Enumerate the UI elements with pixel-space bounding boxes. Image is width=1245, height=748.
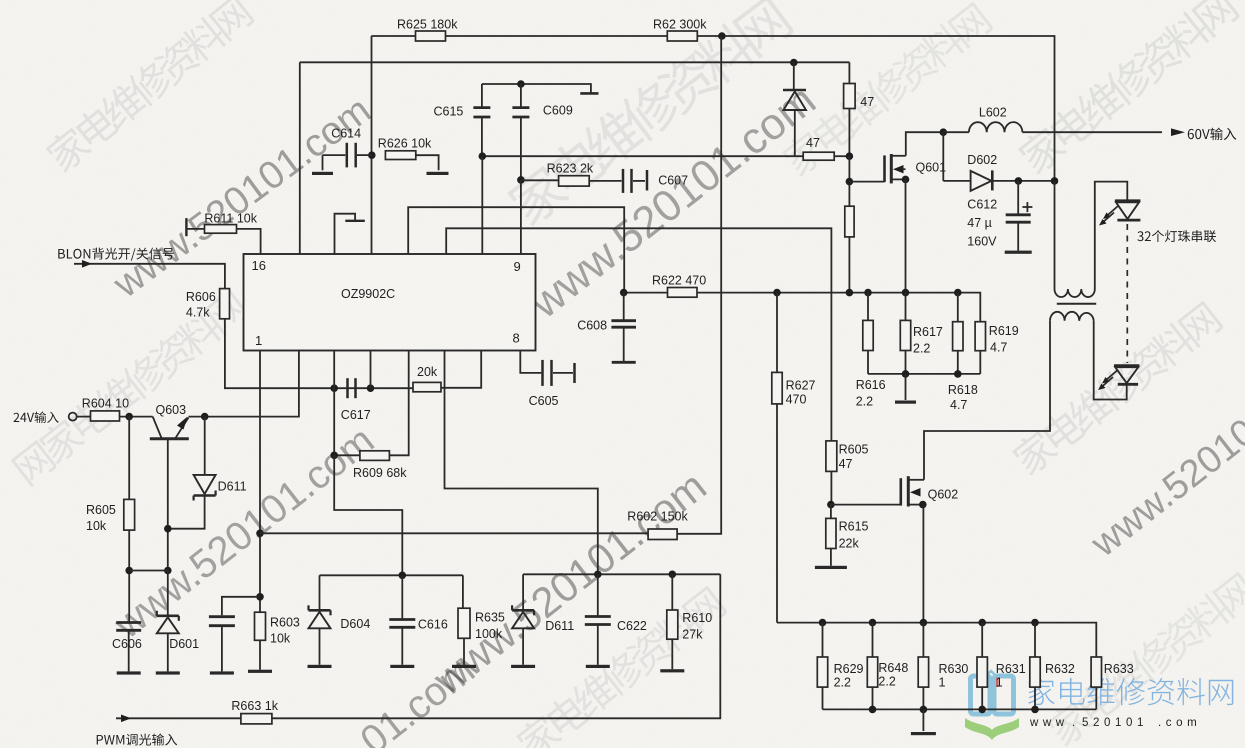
junction R617/Q601 source bbox=[902, 289, 910, 297]
capacitor C612 47u 160V bbox=[1017, 181, 1019, 214]
junction pin9/R623 bbox=[517, 176, 525, 184]
label 32个灯珠串联 bbox=[1137, 230, 1216, 242]
ground sense network bbox=[905, 374, 907, 400]
transistor Q603 bbox=[153, 417, 162, 438]
junction gate Q602 bbox=[827, 501, 835, 509]
pin14 NC flag bbox=[335, 214, 356, 254]
watermark 家电维修资料网 top-left bbox=[43, 0, 256, 175]
resistor R618 4.7 bbox=[957, 293, 959, 322]
capacitor C606 bbox=[116, 621, 141, 624]
wire VIN rail y62 bbox=[300, 61, 850, 63]
wire current sense top y622 bbox=[777, 623, 1096, 657]
LED1 emission arrows bbox=[1106, 206, 1118, 217]
capacitor C608 bbox=[623, 293, 625, 321]
watermark 网 top-right corner bbox=[779, 0, 994, 179]
wire lower winding to Q602 drain bbox=[924, 321, 1050, 480]
wire gate node x849 bbox=[848, 156, 850, 206]
junction gate-divider/R622 bbox=[846, 289, 854, 297]
wire PWM riser x720 bbox=[272, 574, 720, 718]
resistor R604 10 bbox=[77, 416, 91, 418]
wire R605-D601 link y570 bbox=[129, 570, 168, 572]
resistor R622 470 bbox=[668, 288, 698, 298]
resistor R635 100k bbox=[462, 575, 464, 608]
wire R606 to y388 bbox=[225, 319, 413, 388]
junction C608/pin net bbox=[620, 289, 628, 297]
resistor R611 10k bbox=[185, 218, 187, 236]
wire Q602 source down bbox=[922, 505, 924, 623]
logo green swoosh bbox=[965, 718, 1019, 740]
LED2 emission arrows bbox=[1105, 371, 1117, 382]
watermark 家电维修资料网 bottom-right corner bbox=[1044, 569, 1245, 748]
diode D602 bbox=[942, 132, 944, 181]
label 60V输入 bbox=[1188, 128, 1237, 141]
junction R62/vertical bbox=[718, 32, 726, 40]
junction collector/C606 wire bbox=[164, 567, 172, 575]
wire LED dashed series bbox=[1126, 224, 1128, 363]
capacitor C605 bbox=[520, 351, 541, 373]
junction R604/R605 bbox=[125, 413, 133, 421]
resistor R62 300k bbox=[667, 31, 697, 41]
ground R603 bbox=[248, 670, 272, 673]
wire comp net y156 bbox=[482, 155, 803, 157]
junction pin1/cap stub bbox=[256, 593, 264, 601]
diode top-right (unmarked) bbox=[793, 63, 795, 91]
junction R631 bbox=[978, 619, 986, 627]
watermark 网家电 left-middle bbox=[9, 287, 251, 488]
resistor R627 470 bbox=[776, 293, 778, 373]
watermark 家电维修资料网 top-right bbox=[1015, 0, 1241, 177]
wire BLON input bbox=[74, 264, 225, 289]
junction pin3/R609 bbox=[330, 452, 338, 460]
watermark 家电维修资料网 bottom-middle bbox=[513, 583, 728, 748]
wire bottom row segment1 y575 bbox=[320, 574, 463, 576]
resistor R626 10k bbox=[385, 151, 415, 160]
wire pin11 net y228 bbox=[446, 228, 831, 441]
ground R635 bbox=[452, 665, 476, 668]
watermark 家电维修资料网 top-middle bbox=[503, 0, 795, 230]
resistor R602 150k bbox=[648, 529, 677, 540]
junction D602 out / feedback bbox=[1051, 177, 1059, 185]
junction pin13/C614 net bbox=[368, 151, 376, 159]
resistor R615 22k bbox=[830, 505, 832, 519]
junction pin3/C617 left bbox=[330, 384, 338, 392]
junction R610 bbox=[669, 571, 677, 579]
wire upper winding to LED top bbox=[1095, 182, 1128, 289]
junction C609 top bbox=[517, 80, 525, 88]
junction bottom gnd bbox=[920, 706, 928, 714]
node 60V output arrow bbox=[1171, 128, 1185, 136]
resistor R633 bbox=[1091, 657, 1101, 687]
wire feedback x1054 to transformer bbox=[1054, 181, 1056, 289]
junction R629 bbox=[819, 619, 827, 627]
logo book icon bbox=[971, 671, 1014, 714]
resistor R616 2.2 bbox=[867, 293, 869, 321]
junction sense gnd bbox=[902, 370, 910, 378]
resistor 47 vertical top bbox=[848, 62, 850, 83]
capacitor C615 bbox=[481, 84, 483, 108]
ground C606 bbox=[117, 671, 141, 674]
wire Q601 source down bbox=[905, 179, 907, 292]
wire x521 to pin9 bbox=[520, 180, 522, 254]
resistor R631 1 bbox=[981, 623, 983, 657]
ground D604 bbox=[308, 665, 332, 668]
label 24V输入 bbox=[14, 412, 59, 424]
watermark 家电维修资料网 right bbox=[1009, 298, 1224, 478]
diode D611 (upper) bbox=[204, 417, 206, 475]
junction R630/Q602 bbox=[920, 619, 928, 627]
junction bottom R648 bbox=[869, 706, 877, 714]
stub bar top node bbox=[580, 92, 598, 95]
junction R632 bbox=[1031, 619, 1039, 627]
LED1 bbox=[1115, 199, 1141, 202]
diode D604 bbox=[319, 575, 321, 610]
logo 家电维修资料网 bbox=[1028, 678, 1233, 706]
junction R618 bbox=[954, 289, 962, 297]
resistor R632 bbox=[1034, 623, 1036, 657]
resistor R623 2k bbox=[521, 179, 559, 181]
capacitor C616 bbox=[389, 618, 415, 621]
junction bottom R631 bbox=[978, 706, 986, 714]
wire LED2 to lower winding bbox=[1094, 321, 1127, 400]
ground D601 bbox=[156, 671, 180, 674]
capacitor C609 bbox=[520, 84, 522, 108]
junction C616 bbox=[399, 572, 407, 580]
junction R616 bbox=[864, 289, 872, 297]
junction bottom R632 bbox=[1031, 706, 1039, 714]
wire top node y84 bbox=[482, 84, 591, 93]
resistor R663 1k bbox=[241, 714, 272, 724]
wire pin1 vertical bbox=[259, 351, 261, 613]
resistor 20k bbox=[413, 382, 441, 391]
junction D602/C612 bbox=[1015, 177, 1023, 185]
wire Q601 drain bbox=[906, 132, 944, 156]
wire R602 net y533 bbox=[260, 532, 648, 534]
resistor R619 4.7 bbox=[975, 322, 985, 351]
junction R627 tap bbox=[773, 289, 781, 297]
capacitor C622 bbox=[597, 574, 599, 615]
capacitor C607 bbox=[622, 169, 625, 193]
wire current sense bottom y709 bbox=[823, 708, 1097, 710]
ground R615 bbox=[815, 566, 847, 569]
diode D611 (lower) bbox=[522, 574, 524, 610]
junction pin1/R602 bbox=[256, 530, 264, 538]
wire x482 to pin10 bbox=[481, 156, 483, 254]
resistor 47 horizontal bbox=[803, 152, 834, 160]
wire Q603 collector bbox=[167, 439, 169, 571]
junction diode tap y62 bbox=[790, 59, 798, 67]
wire pin12 net y207 bbox=[408, 207, 624, 292]
resistor R603 10k bbox=[255, 612, 266, 640]
resistor R610 27k bbox=[671, 574, 673, 610]
wire R622 net y292 bbox=[624, 292, 668, 294]
node 24V input terminal bbox=[69, 413, 77, 421]
junction emitter/D611 bbox=[201, 413, 209, 421]
capacitor C617 bbox=[346, 378, 349, 398]
transformer winding lower bbox=[1050, 312, 1094, 321]
LED2 bbox=[1114, 364, 1139, 367]
resistor R605 47 (right) bbox=[826, 441, 837, 472]
wire pin4 stub bbox=[370, 351, 372, 389]
wire pin3 jog to C616 bbox=[334, 455, 402, 575]
wire pin6 jog bbox=[445, 351, 598, 575]
transformer winding upper bbox=[1055, 289, 1095, 297]
inductor L602 bbox=[943, 131, 969, 133]
wire emitter to pin2 bbox=[189, 351, 299, 417]
resistor R606 4.7k bbox=[220, 289, 230, 319]
junction R618 bottom bbox=[954, 370, 962, 378]
ground unmarked cap bbox=[210, 671, 234, 674]
label PWM调光输入 bbox=[97, 734, 177, 746]
junction drain/L602/D602 bbox=[940, 128, 948, 136]
junction R605/C606 bbox=[125, 567, 133, 575]
junction R648 bbox=[869, 619, 877, 627]
junction collector/D611 bbox=[164, 525, 172, 533]
node BLON label bbox=[58, 248, 174, 261]
junction C622 bbox=[594, 571, 602, 579]
wire gate lead Q601 bbox=[849, 181, 884, 183]
resistor R605 10k (left) bbox=[128, 417, 130, 500]
MOSFET Q602 bbox=[831, 504, 901, 506]
junction pin4/C617 right bbox=[367, 384, 375, 392]
wire pin3 vertical bbox=[333, 351, 335, 456]
resistor R648 2.2 bbox=[872, 623, 874, 657]
junction Q601 source bbox=[902, 176, 910, 184]
junction gate tap bbox=[846, 178, 854, 186]
ground C622 bbox=[586, 665, 610, 668]
resistor R609 68k bbox=[334, 454, 360, 456]
resistor R630 1 bbox=[922, 623, 924, 657]
ground R610 bbox=[660, 669, 684, 672]
resistor R629 2.2 bbox=[822, 623, 824, 657]
MOSFET Q601 bbox=[883, 155, 886, 182]
wire x371 R625 to pin13 bbox=[371, 36, 373, 254]
capacitor C614 bbox=[323, 154, 346, 156]
resistor R625 180k bbox=[416, 31, 446, 41]
op-amp/controller U OZ9902C bbox=[244, 254, 536, 351]
ground sense bank bbox=[922, 709, 924, 731]
junction Q602 source bbox=[919, 501, 927, 509]
capacitor (unmarked) near R603 bbox=[222, 597, 260, 615]
ground R626 bbox=[427, 172, 449, 175]
resistor R617 2.2 bbox=[905, 293, 907, 321]
resistor (unmarked) x849 bbox=[845, 206, 854, 237]
ground C612 bbox=[1005, 251, 1032, 254]
wire top feedback rail y36 bbox=[371, 35, 416, 37]
wire bottom row segment2 y574 bbox=[523, 573, 720, 575]
wire sense bottom y374 bbox=[868, 373, 980, 375]
diode D601 bbox=[167, 571, 169, 616]
junction C615/y156 bbox=[479, 152, 487, 160]
ground C616 bbox=[390, 665, 414, 668]
ground C614 bbox=[322, 155, 324, 170]
ground D611 lower bbox=[511, 665, 535, 668]
junction 47/47 node bbox=[846, 152, 854, 160]
transformer core bbox=[1057, 303, 1096, 305]
wire x300 to pin15 bbox=[299, 62, 301, 254]
